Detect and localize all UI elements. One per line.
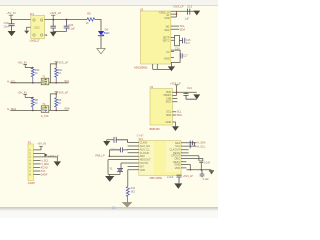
wire xyxy=(11,19,31,21)
svg-text:+5V_IN: +5V_IN xyxy=(17,91,26,95)
svg-text:1K: 1K xyxy=(35,102,38,105)
wire gnd pin xyxy=(172,122,175,126)
svg-text:1K: 1K xyxy=(58,72,61,75)
wire csb sdo stubs xyxy=(172,99,177,102)
svg-text:CLKIN: CLKIN xyxy=(140,141,148,145)
junction xyxy=(11,19,13,21)
wire c1 loop xyxy=(171,50,180,66)
resistor R9 xyxy=(55,98,62,111)
wire xyxy=(108,150,110,156)
capacitor C15 xyxy=(183,38,191,45)
svg-text:2K2: 2K2 xyxy=(131,190,136,193)
svg-text:GND?: GND? xyxy=(28,181,36,185)
node +3V3_LP xyxy=(50,11,62,20)
svg-text:MPU-6050: MPU-6050 xyxy=(150,176,163,180)
svg-text:LM1117: LM1117 xyxy=(30,39,40,43)
capacitor C20 xyxy=(50,20,56,32)
resistor R8 xyxy=(31,98,38,111)
svg-text:VDD: VDD xyxy=(175,166,181,170)
svg-text:AD0: AD0 xyxy=(140,154,146,158)
wire gnd pin2 xyxy=(27,27,31,30)
svg-text:IC1: IC1 xyxy=(30,12,35,16)
svg-text:SCL: SCL xyxy=(64,79,70,83)
node +3V3_LP xyxy=(55,61,69,65)
capacitor C19 xyxy=(3,20,14,31)
svg-text:LD33: LD33 xyxy=(34,26,41,29)
node +5V_IN xyxy=(17,61,27,68)
svg-text:C13: C13 xyxy=(187,5,192,9)
ground xyxy=(8,31,16,36)
svg-text:SDA: SDA xyxy=(166,113,172,117)
ground GND open xyxy=(122,202,132,207)
wire gate xyxy=(50,94,56,111)
capacitor C14 xyxy=(183,87,196,99)
svg-text:+3V3_LP: +3V3_LP xyxy=(57,61,68,65)
svg-text:VDD: VDD xyxy=(164,16,170,20)
svg-text:+3V3_LP: +3V3_LP xyxy=(183,175,194,178)
wire pin7 xyxy=(33,170,40,172)
svg-text:R5: R5 xyxy=(87,11,91,15)
svg-text:U2: U2 xyxy=(140,7,144,11)
wire cpout loop xyxy=(199,156,203,170)
ground xyxy=(172,126,179,131)
wire pin5 xyxy=(33,163,40,165)
LED D4 xyxy=(98,28,110,36)
capacitor row2 xyxy=(189,144,191,148)
junction xyxy=(55,63,57,65)
wire xyxy=(100,36,102,48)
node +5V_IN xyxy=(37,142,46,147)
wire vdd pins xyxy=(172,85,196,95)
resistor R5 xyxy=(86,11,95,24)
junction xyxy=(32,97,34,99)
page number xyxy=(112,207,116,210)
capacitor row1 xyxy=(190,141,192,145)
junction xyxy=(55,82,57,84)
capacitor C21 xyxy=(64,20,76,32)
wire setp loop xyxy=(171,35,183,45)
wire pin2 xyxy=(33,152,44,154)
svg-text:GND: GND xyxy=(164,57,170,61)
svg-text:10uF: 10uF xyxy=(3,25,9,29)
wire right stubs xyxy=(181,143,203,168)
ground GND open xyxy=(97,49,105,54)
svg-text:S_T2A: S_T2A xyxy=(41,115,49,118)
connector P1 body xyxy=(28,140,34,180)
svg-text:FSYNC: FSYNC xyxy=(140,161,149,165)
svg-text:0.1uF: 0.1uF xyxy=(203,178,210,181)
svg-text:AUX_DA: AUX_DA xyxy=(140,144,151,148)
node +3V3_LP xyxy=(170,81,181,85)
op-amp U2 body xyxy=(140,7,171,64)
ground xyxy=(54,161,61,166)
wire scl stub xyxy=(172,111,176,113)
svg-text:SDA: SDA xyxy=(64,107,70,111)
wire SCL stub xyxy=(171,25,179,27)
transistor T2 xyxy=(41,103,49,118)
svg-text:SDO: SDO xyxy=(166,100,172,104)
svg-text:1K: 1K xyxy=(86,22,89,25)
junction xyxy=(194,142,195,143)
resistor R12 xyxy=(126,187,135,197)
svg-text:+5V_IN: +5V_IN xyxy=(37,142,46,146)
svg-text:1K: 1K xyxy=(35,72,38,75)
ground xyxy=(174,183,182,189)
junction xyxy=(109,155,111,157)
svg-text:PA8_LP: PA8_LP xyxy=(95,153,105,157)
wire xyxy=(95,20,101,31)
ground right xyxy=(209,170,214,174)
svg-text:GND: GND xyxy=(166,120,172,124)
junction xyxy=(55,93,57,95)
junction xyxy=(201,169,203,171)
junction xyxy=(66,19,68,21)
ground arrow xyxy=(193,94,200,99)
transistor T1 xyxy=(41,76,49,85)
wire SDA line xyxy=(10,109,68,111)
node +5V_IN xyxy=(17,91,27,98)
wire pin8 xyxy=(33,174,40,176)
junction xyxy=(176,91,178,93)
ground xyxy=(103,141,110,146)
wire to R12 xyxy=(127,170,129,187)
sheet background xyxy=(0,0,218,218)
wire gnd bus xyxy=(187,169,212,171)
power arrow xyxy=(193,11,200,16)
crystal Y1 xyxy=(109,166,123,171)
svg-text:SDA: SDA xyxy=(180,27,186,31)
wire pin4 xyxy=(33,159,40,161)
svg-text:+3V3_LP: +3V3_LP xyxy=(50,11,62,15)
svg-text:SDA: SDA xyxy=(177,114,182,117)
svg-text:C19: C19 xyxy=(4,21,9,25)
capacitor C16 xyxy=(109,147,127,152)
svg-text:C14: C14 xyxy=(187,87,192,90)
resistor R10 xyxy=(31,68,40,83)
wire vdd bus xyxy=(171,11,197,17)
svg-text:U3: U3 xyxy=(150,85,154,89)
capacitor bottom right xyxy=(200,170,205,177)
wire gate xyxy=(50,64,56,83)
wire pin6 xyxy=(33,167,40,169)
wire xyxy=(107,140,114,141)
ground xyxy=(168,66,175,71)
junction xyxy=(190,169,192,171)
svg-text:DNC: DNC xyxy=(175,156,181,160)
junction xyxy=(176,13,178,15)
junction xyxy=(32,67,34,69)
junction xyxy=(32,110,34,112)
wire loop xyxy=(108,160,128,175)
svg-text:2.2nF: 2.2nF xyxy=(167,176,174,179)
svg-text:SDA: SDA xyxy=(164,28,170,32)
ground xyxy=(24,31,29,34)
wire xyxy=(126,197,128,203)
wire pin3 xyxy=(33,157,57,161)
node +3V3_LP xyxy=(44,153,59,158)
op-amp U4 body xyxy=(139,137,181,175)
svg-text:SCL: SCL xyxy=(175,144,181,148)
svg-text:DADF: DADF xyxy=(41,174,48,177)
wire SDA stub xyxy=(171,28,179,30)
capacitor C18 xyxy=(114,137,128,143)
capacitor C13 xyxy=(185,5,193,21)
svg-text:+3V3_LP: +3V3_LP xyxy=(173,5,184,9)
junction xyxy=(32,82,34,84)
wire sda stub xyxy=(172,114,176,116)
svg-text:0.1uF: 0.1uF xyxy=(68,27,75,30)
wire link rows xyxy=(193,143,195,146)
svg-text:+3V3_LP: +3V3_LP xyxy=(57,91,68,95)
resistor R11 xyxy=(55,68,63,83)
svg-text:Y1: Y1 xyxy=(109,166,113,170)
svg-text:REGOUT: REGOUT xyxy=(140,158,152,162)
svg-text:VDD: VDD xyxy=(140,168,146,172)
capacitor under box xyxy=(176,175,181,183)
ground xyxy=(106,174,114,181)
node +3V3_LP xyxy=(55,91,69,95)
wire label row xyxy=(109,155,128,157)
svg-text:H_SDA: H_SDA xyxy=(197,142,206,145)
wire xyxy=(25,97,33,99)
svg-text:1K: 1K xyxy=(58,102,61,105)
svg-text:VLOGIC: VLOGIC xyxy=(140,151,150,155)
node +5V_IN xyxy=(6,11,15,20)
svg-text:BMP180: BMP180 xyxy=(150,127,161,131)
junction xyxy=(55,110,57,112)
svg-text:INT: INT xyxy=(140,164,145,168)
regulator IC1 body xyxy=(30,12,48,43)
capacitor C17 xyxy=(180,53,188,58)
svg-text:AUX_CL: AUX_CL xyxy=(140,147,151,151)
op-amp U3 body xyxy=(150,85,173,125)
junction xyxy=(52,19,54,21)
ground xyxy=(50,32,57,37)
wire 3V3 output xyxy=(45,19,88,21)
wire regv down xyxy=(189,164,191,169)
svg-text:C17: C17 xyxy=(183,55,188,58)
svg-text:0.1uF: 0.1uF xyxy=(204,162,211,165)
svg-text:H_SDA: H_SDA xyxy=(41,163,50,166)
svg-text:+5V_IN: +5V_IN xyxy=(17,61,26,65)
svg-text:H_SCL: H_SCL xyxy=(197,145,206,148)
svg-text:+5V_IN: +5V_IN xyxy=(6,11,15,15)
svg-text:C1: C1 xyxy=(166,50,170,54)
wire left stubs xyxy=(128,143,139,170)
svg-text:GND: GND xyxy=(174,162,180,166)
wire pin1 xyxy=(33,146,41,150)
svg-text:ASIC8960L: ASIC8960L xyxy=(134,66,148,70)
wire bottom pins xyxy=(153,64,172,69)
wire SCL line xyxy=(10,82,68,84)
wire xyxy=(53,30,66,32)
wire xyxy=(25,67,33,69)
svg-text:SETC: SETC xyxy=(163,39,170,43)
svg-text:4u7: 4u7 xyxy=(186,42,191,45)
svg-text:C16: C16 xyxy=(175,48,180,51)
svg-text:1uF: 1uF xyxy=(185,18,190,21)
